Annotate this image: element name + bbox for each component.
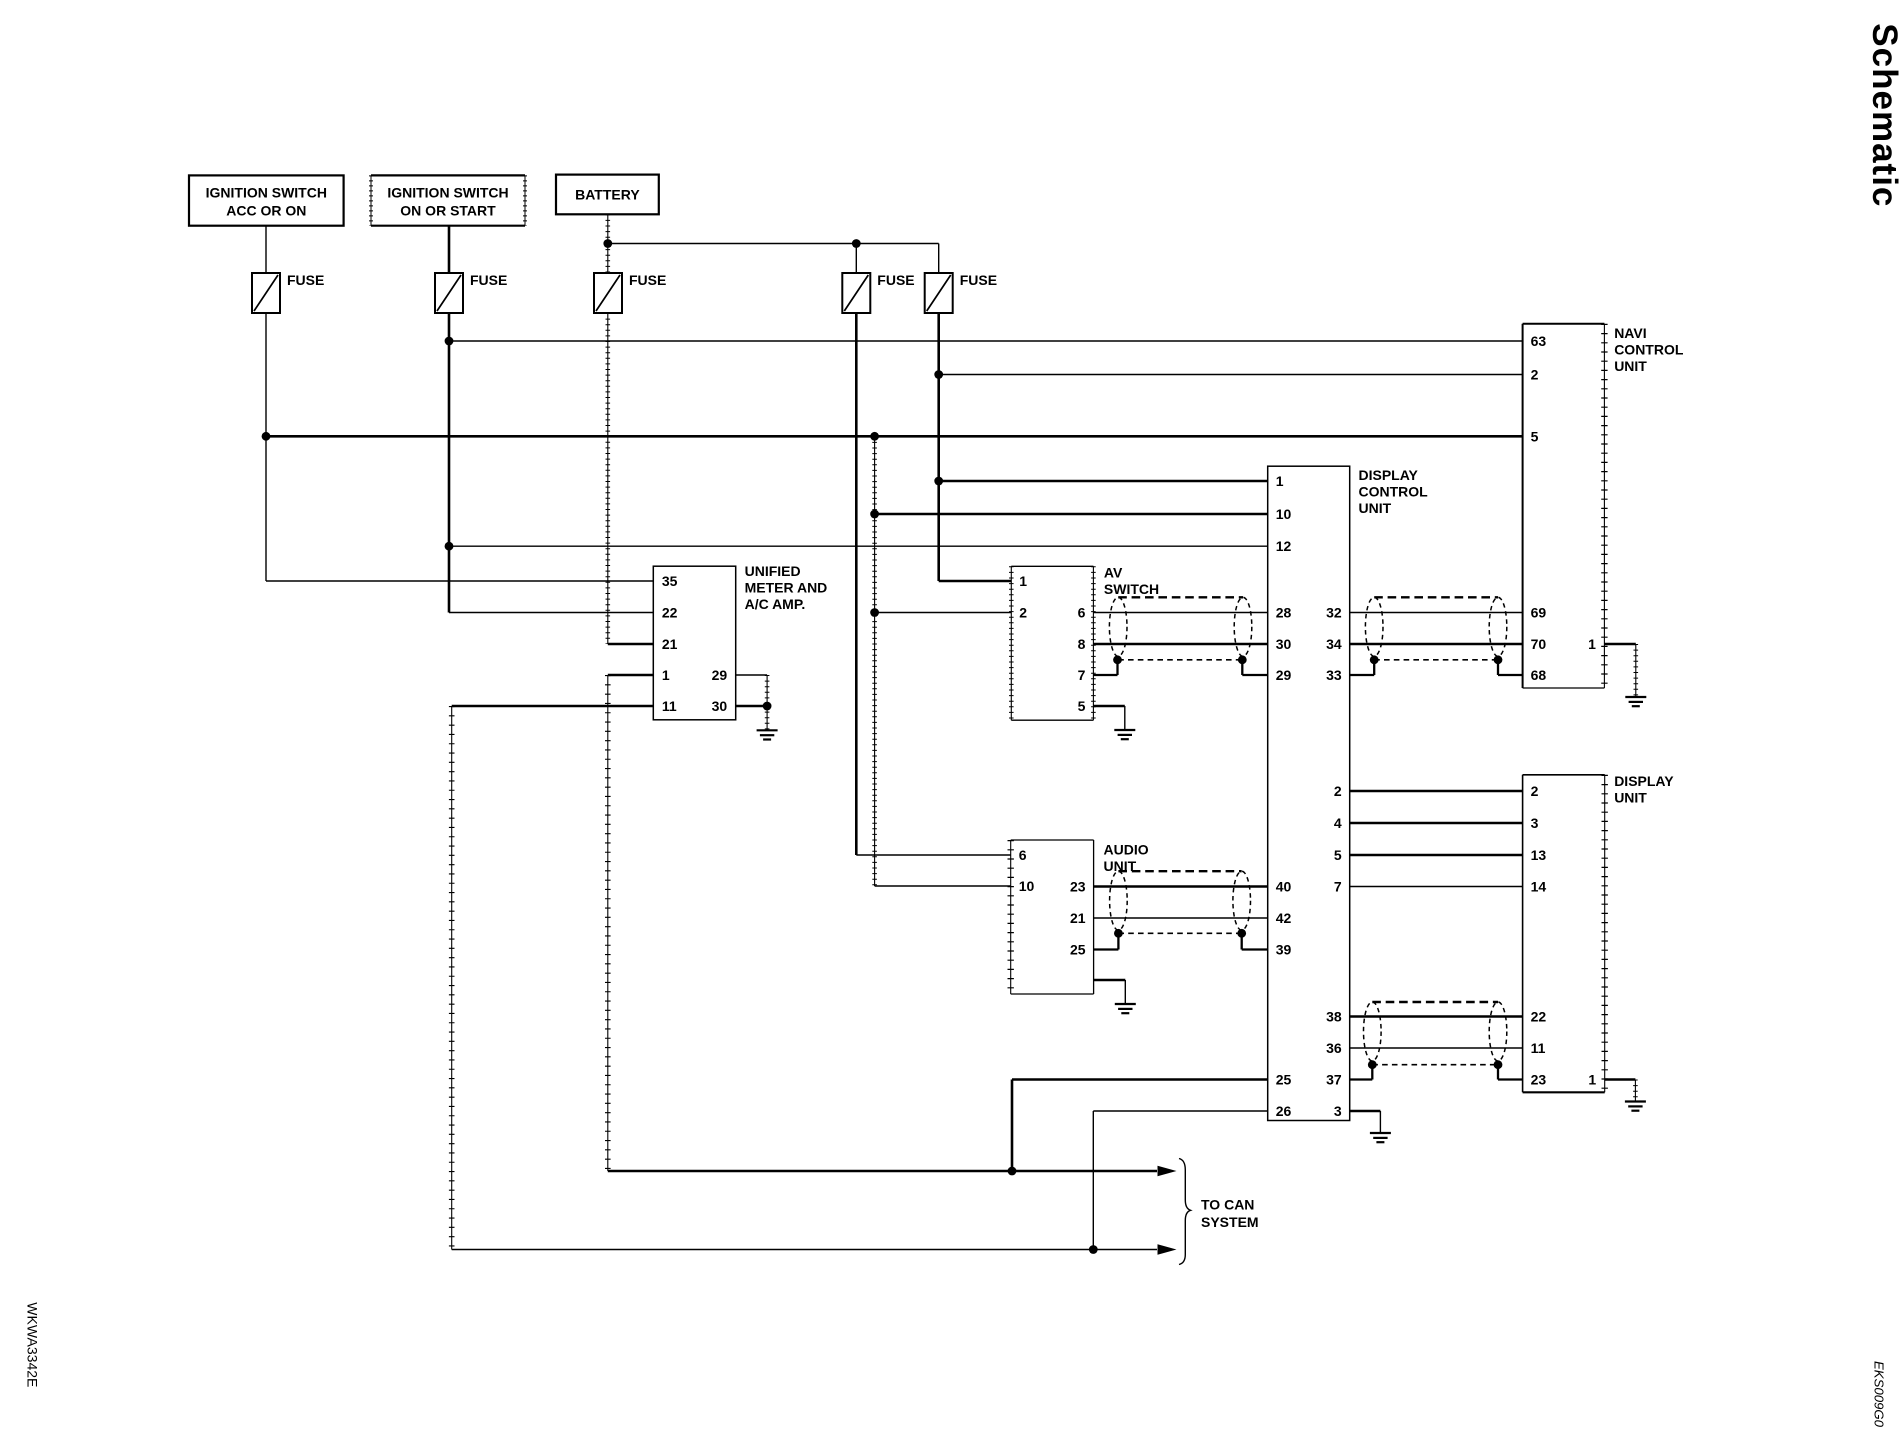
node shield A drain right (1238, 655, 1247, 664)
wire ACC ticked drop to audio-unit pin 10 corner (874, 436, 876, 886)
fuse F2 (ON/START) (435, 272, 507, 313)
wire CAN-H line to CAN system (608, 1170, 1157, 1173)
svg-text:CONTROL: CONTROL (1614, 342, 1684, 358)
wire net B to display control unit pin 12 (449, 545, 1268, 547)
pin 28 label (display control unit left) (1276, 605, 1292, 621)
label WKWA3342E (25, 1302, 41, 1387)
title Schematic (1865, 23, 1904, 207)
wire ACC to unified meter pin 35 (266, 580, 653, 582)
svg-text:UNIT: UNIT (1359, 500, 1392, 516)
pin 8 label (AV switch) (1078, 636, 1086, 652)
node ACC bus junction on thick bus (870, 432, 879, 441)
shielded cable D left ellipse (1364, 1002, 1382, 1061)
svg-text:ON OR START: ON OR START (400, 203, 496, 219)
svg-text:SWITCH: SWITCH (1104, 581, 1159, 597)
unified meter and A/C amp box (653, 563, 827, 720)
wire net B to unified meter pin 22 (449, 612, 653, 614)
pin 3 label (display unit) (1531, 815, 1539, 831)
svg-text:UNIT: UNIT (1614, 790, 1647, 806)
svg-text:1: 1 (1588, 636, 1596, 652)
svg-text:2: 2 (1019, 605, 1027, 621)
pin 1 label (display unit right) (1588, 1072, 1596, 1088)
node shield A drain left (1113, 655, 1122, 664)
pin 70 label (navi control unit) (1531, 636, 1547, 652)
pin 11 label (unified meter) (662, 698, 677, 714)
ignition switch ACC-or-ON source box (189, 175, 344, 225)
svg-text:13: 13 (1531, 847, 1547, 863)
node fuse F4 tap (852, 239, 861, 248)
battery source box (556, 175, 659, 215)
wire fuse F3 down to unified-meter pin 21 corner (607, 313, 609, 644)
svg-text:5: 5 (1334, 847, 1342, 863)
pin 21 label (audio unit) (1070, 910, 1086, 926)
pin 1 label (AV switch) (1019, 573, 1027, 589)
wire DCU pin 37 to shield D drain (1350, 1065, 1373, 1080)
shielded cable B top dashed shield (1374, 596, 1498, 598)
pin 30 label (unified meter) (712, 698, 728, 714)
pin 3 label (display control unit right) (1334, 1103, 1342, 1119)
node ON/START tap to display-control pin 12 wire (445, 542, 454, 551)
svg-text:7: 7 (1334, 879, 1342, 895)
ground symbol (AV switch) (1114, 730, 1135, 739)
svg-text:23: 23 (1070, 879, 1086, 895)
pin 7 label (AV switch) (1078, 667, 1086, 683)
shielded cable D bottom dashed drain (1372, 1064, 1498, 1066)
wire fuse F1 down to unified-meter pin 35 corner (265, 313, 267, 581)
node CAN-L junction (1089, 1245, 1098, 1254)
wire DCU pin 38 to display unit pin 22 (1350, 1015, 1523, 1018)
svg-text:70: 70 (1531, 636, 1547, 652)
fuse F3 (battery) (594, 272, 666, 313)
pin 23 label (display unit) (1531, 1072, 1547, 1088)
svg-text:CONTROL: CONTROL (1359, 484, 1429, 500)
pin 33 label (display control unit right) (1326, 667, 1342, 683)
shielded cable A right ellipse (1234, 597, 1252, 656)
wire CAN-L drop from unified pin 11 (451, 706, 453, 1250)
pin 25 label (display control unit left) (1276, 1072, 1292, 1088)
display control unit box (1268, 466, 1428, 1120)
wire shield C drain to DCU pin 39 (1242, 933, 1268, 949)
wire DCU pin 26 to CAN-L line (1093, 1111, 1267, 1250)
svg-text:23: 23 (1531, 1072, 1547, 1088)
wire net F5 to display control unit pin 1 (939, 480, 1268, 483)
pin 23 label (audio unit) (1070, 879, 1086, 895)
pin 25 label (audio unit) (1070, 942, 1086, 958)
navi control unit box (1523, 324, 1684, 688)
ground symbol (display unit) (1625, 1102, 1646, 1111)
pin 10 label (audio unit) (1019, 878, 1035, 894)
svg-text:FUSE: FUSE (287, 272, 324, 288)
svg-text:40: 40 (1276, 879, 1292, 895)
wire audio pin 23 to DCU pin 40 (1094, 885, 1268, 888)
pin 26 label (display control unit left) (1276, 1103, 1292, 1119)
pin 38 label (display control unit right) (1326, 1009, 1342, 1025)
pin 5 label (navi control unit) (1531, 428, 1539, 444)
wire fuse F4 into audio unit pin 6 (856, 854, 1010, 856)
svg-text:10: 10 (1276, 506, 1292, 522)
svg-text:6: 6 (1019, 847, 1027, 863)
svg-text:39: 39 (1276, 942, 1292, 958)
wire net F5 to navi control unit pin 2 (939, 374, 1523, 376)
wire display unit pin 1 to ground (1605, 1080, 1636, 1102)
svg-text:68: 68 (1531, 667, 1547, 683)
wire unified pin 29 to ground drop (736, 675, 767, 706)
svg-text:FUSE: FUSE (629, 272, 666, 288)
svg-text:DISPLAY: DISPLAY (1359, 467, 1419, 483)
svg-text:42: 42 (1276, 910, 1292, 926)
wire AV switch pin 5 to ground (1093, 706, 1124, 730)
svg-text:22: 22 (662, 605, 678, 621)
wire net B to navi control unit pin 63 (449, 340, 1523, 342)
svg-text:14: 14 (1531, 879, 1547, 895)
pin 5 label (display control unit right) (1334, 847, 1342, 863)
svg-text:26: 26 (1276, 1103, 1292, 1119)
wire audio unit case to ground (1094, 980, 1126, 1004)
svg-text:33: 33 (1326, 667, 1342, 683)
wire fuse F2 down to unified-meter pin 22 corner (448, 313, 451, 613)
svg-text:30: 30 (712, 698, 728, 714)
svg-text:38: 38 (1326, 1009, 1342, 1025)
wire ACC drop into AV switch pin 2 (875, 612, 1012, 614)
wire ground stem (unified) (766, 706, 768, 730)
label EKS009G0 (1872, 1361, 1887, 1428)
node shield C drain right (1237, 929, 1246, 938)
wire AV pin 7 to shield A drain (1093, 660, 1117, 675)
svg-text:3: 3 (1531, 815, 1539, 831)
svg-text:METER AND: METER AND (745, 580, 828, 596)
wire navi pin 1 to ground (1604, 644, 1635, 697)
svg-text:63: 63 (1531, 333, 1547, 349)
node shield D drain left (1368, 1060, 1377, 1069)
svg-text:8: 8 (1078, 636, 1086, 652)
svg-text:UNIFIED: UNIFIED (745, 563, 801, 579)
svg-text:6: 6 (1078, 605, 1086, 621)
wire audio pin 25 to shield C drain (1094, 933, 1119, 949)
svg-text:SYSTEM: SYSTEM (1201, 1214, 1259, 1230)
shielded cable B right ellipse (1489, 597, 1507, 656)
shielded cable B bottom dashed drain (1374, 659, 1498, 661)
wire shield B drain to navi pin 68 (1498, 660, 1523, 675)
svg-text:25: 25 (1276, 1072, 1292, 1088)
wire ACC drop to display control unit pin 10 (875, 513, 1268, 516)
svg-text:32: 32 (1326, 605, 1342, 621)
node unified ground junction (763, 702, 772, 711)
svg-text:12: 12 (1276, 538, 1292, 554)
wire AV pin 8 to DCU pin 30 (1093, 643, 1267, 646)
wire ACC box to fuse F1 (265, 226, 267, 273)
wire fuse F4 down to audio-unit pin 6 corner (855, 313, 858, 855)
pin 1 label (navi control unit right) (1588, 636, 1596, 652)
pin 4 label (display control unit right) (1334, 815, 1342, 831)
pin 14 label (display unit) (1531, 879, 1547, 895)
svg-text:29: 29 (712, 667, 728, 683)
svg-text:30: 30 (1276, 636, 1292, 652)
pin 29 label (display control unit left) (1276, 667, 1292, 683)
svg-text:2: 2 (1334, 783, 1342, 799)
wire battery feed bus to fuse F5 drop (608, 243, 939, 245)
svg-text:7: 7 (1078, 667, 1086, 683)
svg-text:22: 22 (1531, 1009, 1547, 1025)
wire fuse F5 into AV switch pin 1 (939, 580, 1012, 583)
svg-text:37: 37 (1326, 1072, 1342, 1088)
shielded cable C bottom dashed drain (1118, 932, 1241, 934)
wire DCU pin 3 to ground (1350, 1111, 1381, 1133)
wire DCU pin 34 to navi pin 70 (1350, 643, 1523, 646)
shielded cable D top dashed shield (1372, 1001, 1498, 1003)
pin 1 label (display control unit left) (1276, 473, 1284, 489)
wire tap down to fuse F4 (855, 244, 857, 274)
display unit box (1523, 773, 1675, 1092)
wire DCU pin 4 to display unit pin 3 (1350, 822, 1523, 825)
arrowhead CAN-L (1158, 1244, 1177, 1254)
pin 42 label (display control unit left) (1276, 910, 1292, 926)
wire ACC drop into audio unit pin 10 (875, 885, 1011, 887)
shielded cable A bottom dashed drain (1118, 659, 1243, 661)
svg-text:DISPLAY: DISPLAY (1614, 773, 1674, 789)
node ACC drop tap to AV-switch pin 2 wire (870, 608, 879, 617)
pin 21 label (unified meter) (662, 636, 678, 652)
svg-text:2: 2 (1531, 783, 1539, 799)
svg-text:FUSE: FUSE (960, 272, 997, 288)
audio unit box (1011, 840, 1149, 994)
shielded cable D right ellipse (1489, 1002, 1507, 1061)
pin 2 label (AV switch) (1019, 605, 1027, 621)
svg-text:1: 1 (1588, 1072, 1596, 1088)
svg-text:AUDIO: AUDIO (1104, 842, 1149, 858)
pin 68 label (navi control unit) (1531, 667, 1547, 683)
pin 36 label (display control unit right) (1326, 1040, 1342, 1056)
svg-text:TO CAN: TO CAN (1201, 1197, 1254, 1213)
svg-text:29: 29 (1276, 667, 1292, 683)
shielded cable C top dashed shield (1118, 870, 1241, 872)
svg-text:34: 34 (1326, 636, 1342, 652)
svg-text:69: 69 (1531, 605, 1547, 621)
node shield D drain right (1494, 1060, 1503, 1069)
wire audio pin 21 to DCU pin 42 (1094, 917, 1268, 919)
node shield C drain left (1114, 929, 1123, 938)
wire ON/START box to fuse F2 (448, 226, 451, 273)
svg-text:FUSE: FUSE (877, 272, 914, 288)
svg-text:21: 21 (662, 636, 678, 652)
wire unified pin 30 to ground node (736, 705, 767, 708)
ground symbol (audio unit) (1115, 1004, 1136, 1013)
svg-text:NAVI: NAVI (1614, 325, 1646, 341)
shielded cable A left ellipse (1109, 597, 1127, 656)
svg-text:4: 4 (1334, 815, 1342, 831)
node shield B drain right (1494, 655, 1503, 664)
svg-text:IGNITION SWITCH: IGNITION SWITCH (206, 185, 327, 201)
wire shield D drain to display unit pin 23 (1498, 1065, 1523, 1080)
pin 5 label (AV switch) (1078, 698, 1086, 714)
wire DCU pin 2 to display unit pin 2 (1350, 790, 1523, 793)
pin 29 label (unified meter) (712, 667, 728, 683)
svg-text:WKWA3342E: WKWA3342E (25, 1302, 41, 1387)
node fuse F5 tap to navi pin 2 wire (934, 370, 943, 379)
svg-text:1: 1 (1276, 473, 1284, 489)
svg-text:36: 36 (1326, 1040, 1342, 1056)
wire DCU pin 25 to CAN-H line (1012, 1080, 1268, 1172)
wire fuse F5 down to AV-switch pin 1 corner (937, 313, 940, 581)
svg-text:AV: AV (1104, 565, 1123, 581)
pin 32 label (display control unit right) (1326, 605, 1342, 621)
wire unified meter pin 11 to CAN drop (452, 705, 654, 708)
wire battery box to battery feed node (607, 214, 609, 243)
wire DCU pin 5 to display unit pin 13 (1350, 854, 1523, 857)
svg-text:A/C AMP.: A/C AMP. (745, 596, 806, 612)
shielded cable A top dashed shield (1118, 596, 1243, 598)
pin 69 label (navi control unit) (1531, 605, 1547, 621)
pin 6 label (audio unit) (1019, 847, 1027, 863)
ground symbol (unified meter) (757, 730, 778, 739)
pin 12 label (display control unit left) (1276, 538, 1292, 554)
pin 2 label (navi control unit) (1531, 367, 1539, 383)
svg-text:IGNITION SWITCH: IGNITION SWITCH (387, 185, 508, 201)
shielded cable C right ellipse (1233, 871, 1251, 930)
svg-text:EKS009G0: EKS009G0 (1872, 1361, 1887, 1428)
pin 34 label (display control unit right) (1326, 636, 1342, 652)
ignition switch ON-or-START source box (371, 175, 525, 225)
ground symbol (display control unit) (1370, 1133, 1391, 1142)
pin 2 label (display unit) (1531, 783, 1539, 799)
pin 22 label (unified meter) (662, 605, 678, 621)
pin 2 label (display control unit right) (1334, 783, 1342, 799)
svg-text:FUSE: FUSE (470, 272, 507, 288)
pin 7 label (display control unit right) (1334, 879, 1342, 895)
ground symbol (navi control unit) (1625, 697, 1646, 706)
wire battery F3 to unified meter pin 21 (608, 643, 654, 646)
svg-text:11: 11 (1531, 1040, 1546, 1056)
brace to CAN system (1179, 1159, 1191, 1265)
pin 1 label (unified meter) (662, 667, 670, 683)
wire DCU pin 33 to shield B drain (1350, 660, 1375, 675)
node fuse F5 tap to display-control pin 1 wire (934, 477, 943, 486)
fuse F1 (ACC) (252, 272, 324, 313)
node ACC drop tap to display-control pin 10 wire (870, 510, 879, 519)
wire DCU pin 36 to display unit pin 11 (1350, 1047, 1523, 1049)
pin 10 label (display control unit left) (1276, 506, 1292, 522)
wire feed corner down to fuse F5 (938, 244, 940, 274)
pin 37 label (display control unit right) (1326, 1072, 1342, 1088)
svg-text:UNIT: UNIT (1614, 358, 1647, 374)
wire ACC thick bus to navi control unit pin 5 (266, 435, 1523, 438)
pin 11 label (display unit) (1531, 1040, 1546, 1056)
node shield B drain left (1370, 655, 1379, 664)
label TO CAN SYSTEM (1201, 1197, 1259, 1231)
shielded cable B left ellipse (1365, 597, 1383, 656)
AV switch box (1011, 565, 1159, 721)
svg-text:35: 35 (662, 573, 678, 589)
node battery feed junction (603, 239, 612, 248)
wire battery feed into fuse F3 (607, 244, 609, 274)
wire DCU pin 7 to display unit pin 14 (1350, 886, 1523, 888)
wire CAN-H drop from unified pin 1 (607, 675, 609, 1171)
svg-text:21: 21 (1070, 910, 1086, 926)
svg-text:ACC OR ON: ACC OR ON (226, 203, 306, 219)
svg-text:5: 5 (1531, 428, 1539, 444)
pin 39 label (display control unit left) (1276, 942, 1292, 958)
fuse F4 (battery) (842, 272, 914, 313)
pin 13 label (display unit) (1531, 847, 1547, 863)
fuse F5 (battery) (925, 272, 997, 313)
pin 30 label (display control unit left) (1276, 636, 1292, 652)
svg-text:1: 1 (662, 667, 670, 683)
pin 63 label (navi control unit) (1531, 333, 1547, 349)
pin 6 label (AV switch) (1078, 605, 1086, 621)
wire unified meter pin 1 to CAN drop (608, 674, 654, 677)
wire DCU pin 32 to navi pin 69 (1350, 612, 1523, 614)
svg-text:25: 25 (1070, 942, 1086, 958)
pin 40 label (display control unit left) (1276, 879, 1292, 895)
svg-text:Schematic: Schematic (1865, 23, 1904, 207)
svg-text:3: 3 (1334, 1103, 1342, 1119)
svg-text:28: 28 (1276, 605, 1292, 621)
node ON/START tap to navi pin 63 wire (445, 337, 454, 346)
pin 22 label (display unit) (1531, 1009, 1547, 1025)
arrowhead CAN-H (1158, 1166, 1177, 1176)
shielded cable C left ellipse (1110, 871, 1128, 930)
pin 35 label (unified meter) (662, 573, 678, 589)
wire AV pin 6 to DCU pin 28 (1093, 612, 1267, 614)
wire CAN-L line to CAN system (452, 1249, 1157, 1251)
svg-text:BATTERY: BATTERY (575, 187, 640, 203)
svg-text:1: 1 (1019, 573, 1027, 589)
node ACC bus tap at thick bus (262, 432, 271, 441)
svg-text:10: 10 (1019, 878, 1035, 894)
svg-text:11: 11 (662, 698, 677, 714)
svg-text:2: 2 (1531, 367, 1539, 383)
svg-text:5: 5 (1078, 698, 1086, 714)
node CAN-H junction (1008, 1167, 1017, 1176)
wire shield A drain to DCU pin 29 (1242, 660, 1267, 675)
